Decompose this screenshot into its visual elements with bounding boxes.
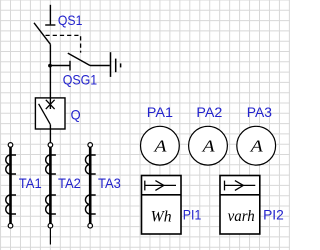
TA1 primary conductor bbox=[9, 147, 12, 223]
ground bar 1 bbox=[110, 52, 112, 77]
TA2 bottom terminal circle bbox=[48, 223, 53, 228]
disconnector QS1 fixed-contact bar bbox=[45, 24, 55, 26]
energy meter PI1 box bbox=[142, 176, 182, 235]
svg-text:PA3: PA3 bbox=[247, 104, 272, 120]
PI2 meter arrow symbol bbox=[225, 181, 256, 191]
svg-text:Q: Q bbox=[71, 106, 81, 122]
breaker Q top stub wire bbox=[49, 98, 51, 109]
PI1 divider bbox=[142, 194, 182, 196]
TA3 top terminal circle bbox=[88, 143, 93, 148]
wire: TA2 outgoing feeder bbox=[49, 228, 51, 245]
wire: QS1 to breaker Q bbox=[49, 44, 51, 98]
TA3 bottom terminal circle bbox=[88, 223, 93, 228]
mechanical interlock dashed link QS1-QSG1 bbox=[46, 35, 81, 52]
breaker Q bottom stub wire bbox=[49, 125, 51, 143]
svg-text:PA2: PA2 bbox=[196, 104, 222, 120]
ammeter PA3 bbox=[237, 126, 276, 165]
svg-text:varh: varh bbox=[228, 208, 255, 225]
svg-text:TA1: TA1 bbox=[19, 175, 42, 191]
energy meter PI2 box bbox=[220, 176, 260, 235]
TA3 winding group 1 bbox=[85, 155, 90, 174]
wire: QSG1 to ground bbox=[90, 65, 110, 67]
breaker Q contact X mark bbox=[46, 100, 55, 109]
TA1 bottom terminal circle bbox=[8, 223, 13, 228]
current transformer TA1 bbox=[6, 143, 16, 228]
svg-text:QS1: QS1 bbox=[58, 12, 83, 28]
svg-text:PA1: PA1 bbox=[147, 104, 173, 120]
TA2 winding group 1 bbox=[46, 155, 51, 174]
svg-text:TA3: TA3 bbox=[98, 175, 121, 191]
TA1 top terminal circle bbox=[8, 143, 13, 148]
svg-text:PI1: PI1 bbox=[183, 206, 202, 222]
PI2 divider bbox=[220, 194, 260, 196]
current transformer TA3 bbox=[85, 143, 95, 228]
ground bar 3 bbox=[120, 63, 122, 67]
circuit breaker Q box bbox=[35, 98, 65, 129]
breaker Q blade bbox=[39, 104, 51, 125]
ground bar 2 bbox=[115, 59, 117, 73]
svg-text:TA2: TA2 bbox=[58, 175, 81, 191]
TA3 winding group 2 bbox=[85, 195, 90, 214]
svg-text:A: A bbox=[250, 136, 264, 155]
ammeter PA1 bbox=[141, 126, 180, 165]
current transformer TA2 bbox=[46, 143, 56, 245]
TA2 top terminal circle bbox=[48, 143, 53, 148]
TA1 winding group 1 bbox=[6, 155, 11, 174]
svg-text:A: A bbox=[201, 136, 215, 155]
TA1 winding group 2 bbox=[6, 195, 11, 214]
svg-text:A: A bbox=[153, 136, 167, 155]
earthing switch QSG1 blade bbox=[68, 53, 90, 65]
TA2 winding group 2 bbox=[46, 195, 51, 214]
disconnector QS1 blade bbox=[34, 23, 50, 45]
svg-text:QSG1: QSG1 bbox=[63, 71, 98, 87]
TA2 primary conductor bbox=[49, 147, 52, 223]
wire: top feeder into QS1 bbox=[49, 5, 51, 25]
PI1 meter arrow symbol bbox=[145, 181, 176, 191]
ammeter PA2 bbox=[189, 126, 228, 165]
TA3 primary conductor bbox=[89, 147, 92, 223]
wire: junction to QSG1 contact bbox=[50, 65, 70, 67]
svg-text:Wh: Wh bbox=[151, 208, 172, 225]
svg-text:PI2: PI2 bbox=[263, 206, 284, 222]
earthing switch QSG1 fixed-contact bar bbox=[69, 61, 71, 71]
node junction dot bbox=[48, 64, 52, 68]
